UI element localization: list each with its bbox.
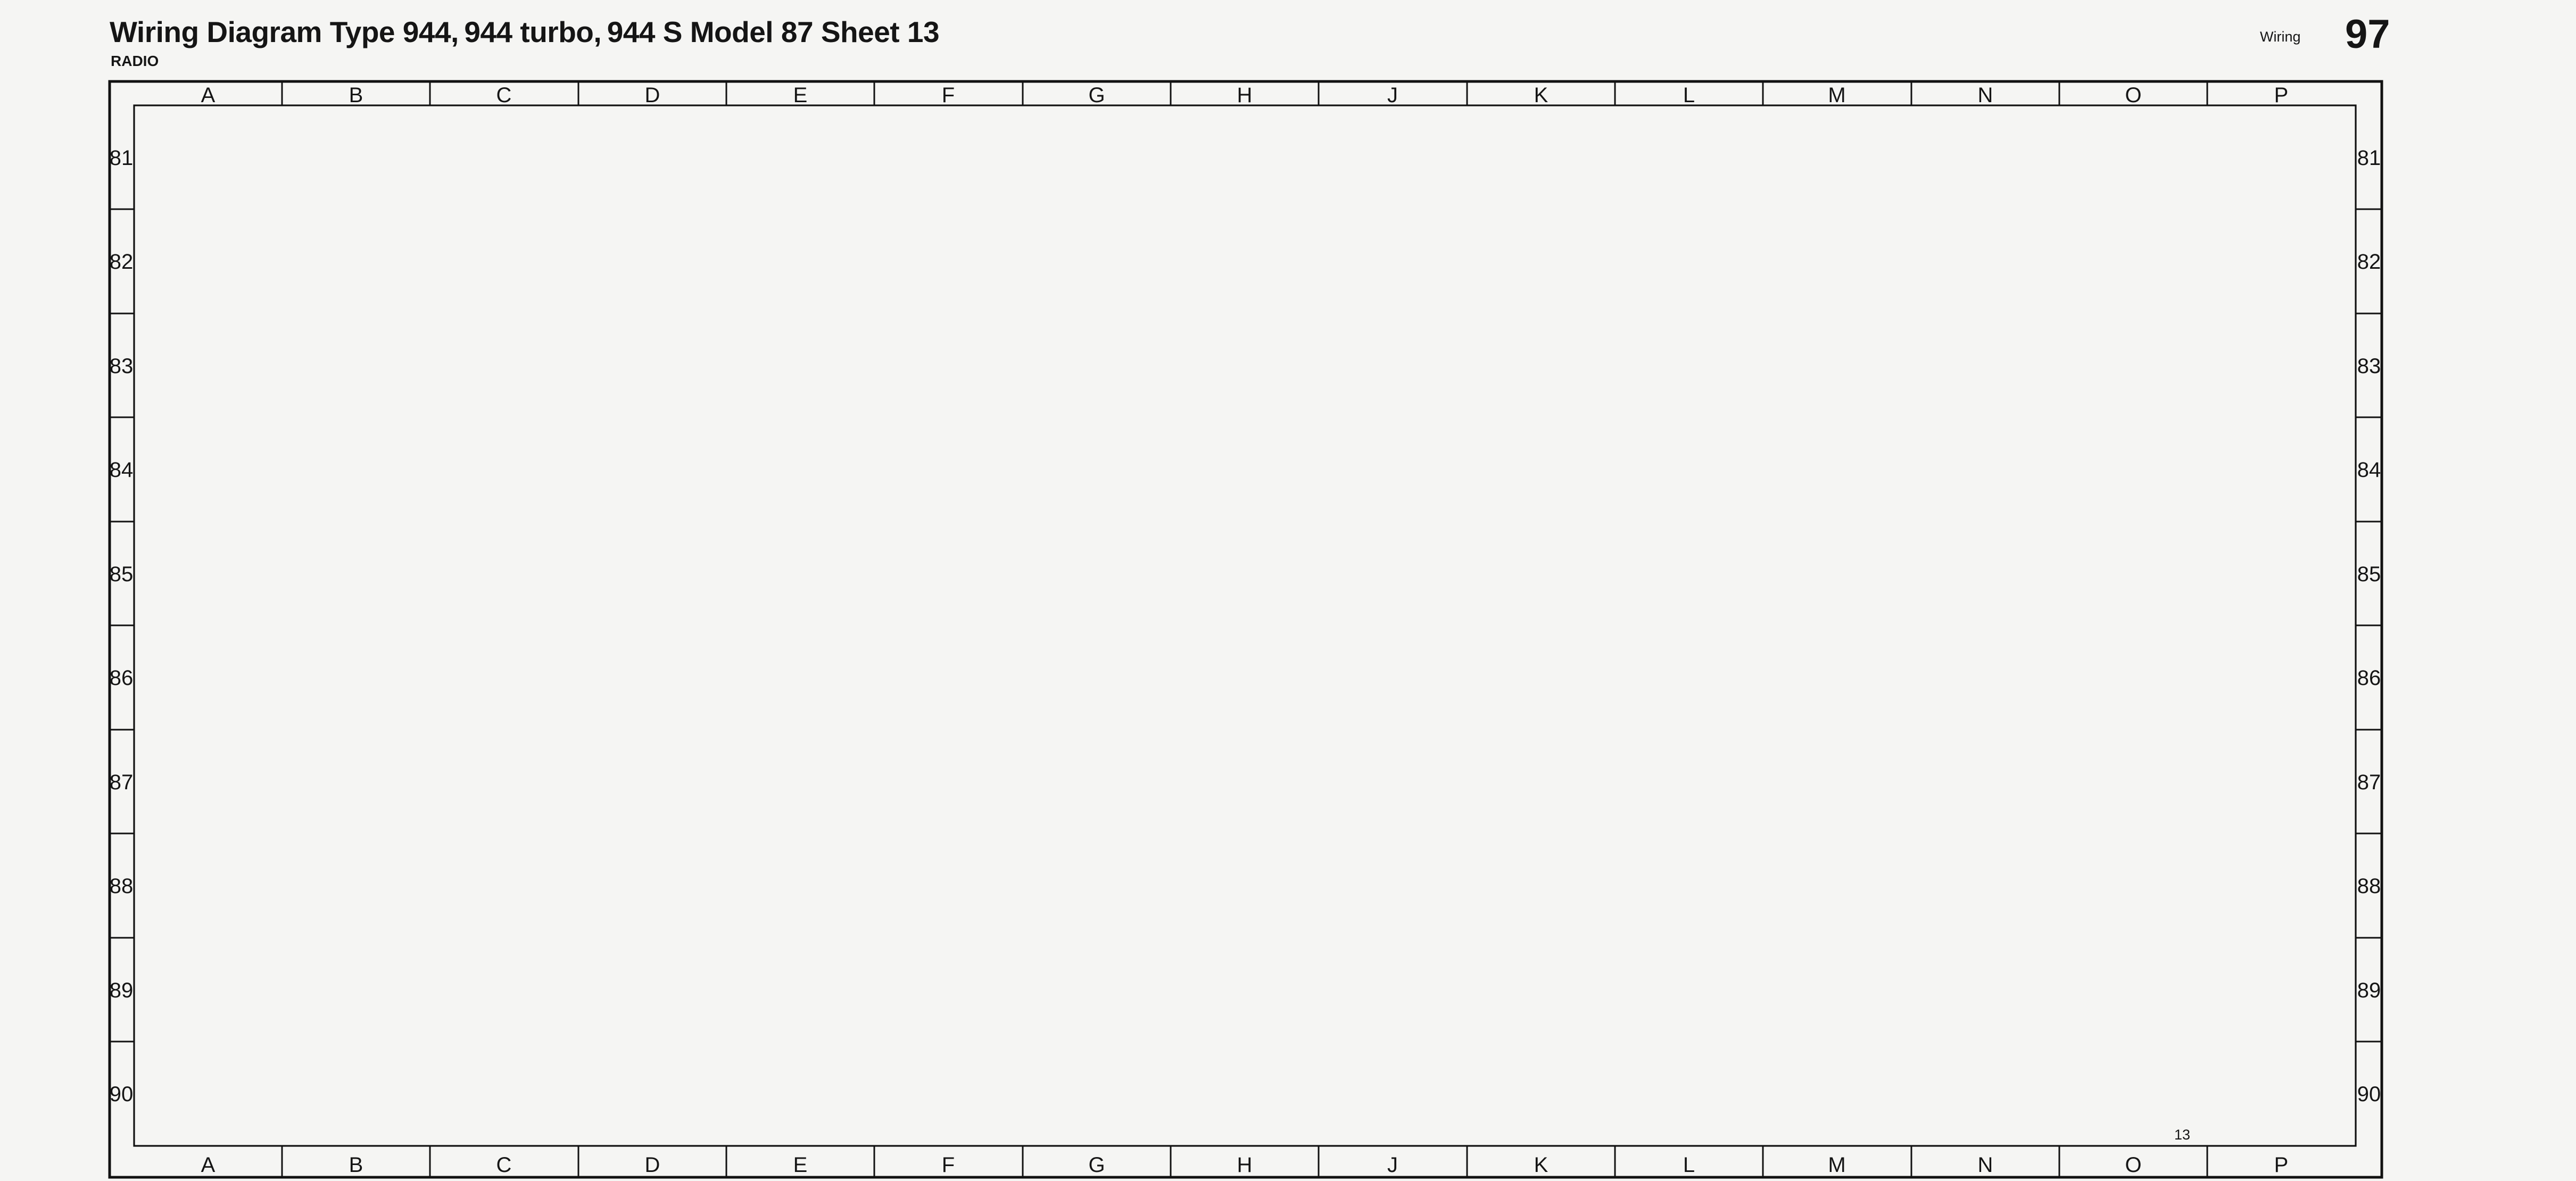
- svg-text:83: 83: [2357, 354, 2381, 378]
- svg-text:82: 82: [110, 250, 134, 274]
- svg-text:A: A: [201, 1153, 216, 1177]
- svg-text:J: J: [1387, 1153, 1398, 1177]
- svg-text:N: N: [1978, 84, 1993, 107]
- svg-text:L: L: [1683, 1153, 1695, 1177]
- svg-text:Wiring: Wiring: [2260, 29, 2301, 45]
- svg-text:F: F: [942, 84, 955, 107]
- column ticks top/bottom: [282, 81, 2207, 1177]
- svg-text:H: H: [1237, 1153, 1253, 1177]
- svg-text:E: E: [793, 84, 808, 107]
- svg-text:B: B: [349, 84, 363, 107]
- svg-text:RADIO: RADIO: [111, 53, 159, 69]
- svg-text:H: H: [1237, 84, 1253, 107]
- svg-text:O: O: [2125, 84, 2141, 107]
- svg-text:83: 83: [110, 354, 134, 378]
- svg-text:89: 89: [110, 979, 134, 1002]
- svg-text:90: 90: [110, 1083, 134, 1106]
- svg-text:86: 86: [110, 666, 134, 690]
- svg-text:Wiring Diagram Type 944, 944 t: Wiring Diagram Type 944, 944 turbo, 944 …: [110, 15, 939, 48]
- svg-text:D: D: [645, 1153, 660, 1177]
- svg-text:P: P: [2274, 1153, 2289, 1177]
- svg-text:K: K: [1534, 1153, 1548, 1177]
- column letters top: [201, 84, 2289, 107]
- row ticks left/right: [110, 209, 2382, 1042]
- svg-text:97: 97: [2345, 12, 2390, 57]
- svg-text:B: B: [349, 1153, 363, 1177]
- svg-text:90: 90: [2357, 1083, 2381, 1106]
- svg-text:L: L: [1683, 84, 1695, 107]
- svg-text:87: 87: [110, 771, 134, 794]
- svg-text:88: 88: [110, 874, 134, 898]
- svg-text:89: 89: [2357, 979, 2381, 1002]
- svg-text:N: N: [1978, 1153, 1993, 1177]
- svg-text:C: C: [496, 84, 512, 107]
- svg-text:85: 85: [2357, 563, 2381, 586]
- svg-text:85: 85: [110, 563, 134, 586]
- svg-text:D: D: [645, 84, 660, 107]
- svg-text:84: 84: [110, 458, 134, 482]
- svg-text:K: K: [1534, 84, 1548, 107]
- svg-text:O: O: [2125, 1153, 2141, 1177]
- svg-text:M: M: [1828, 84, 1845, 107]
- svg-text:J: J: [1387, 84, 1398, 107]
- row numbers: [110, 146, 2381, 1106]
- svg-text:82: 82: [2357, 250, 2381, 274]
- svg-text:87: 87: [2357, 771, 2381, 794]
- svg-text:81: 81: [2357, 146, 2381, 170]
- column letters bottom: [201, 1153, 2289, 1177]
- svg-text:C: C: [496, 1153, 512, 1177]
- svg-text:86: 86: [2357, 666, 2381, 690]
- svg-text:P: P: [2274, 84, 2289, 107]
- svg-text:F: F: [942, 1153, 955, 1177]
- svg-text:84: 84: [2357, 458, 2381, 482]
- svg-text:G: G: [1088, 84, 1105, 107]
- svg-text:81: 81: [110, 146, 134, 170]
- inner frame: [134, 105, 2356, 1146]
- svg-text:A: A: [201, 84, 216, 107]
- svg-text:M: M: [1828, 1153, 1845, 1177]
- svg-text:G: G: [1088, 1153, 1105, 1177]
- svg-text:13: 13: [2174, 1127, 2190, 1143]
- svg-text:88: 88: [2357, 874, 2381, 898]
- svg-text:E: E: [793, 1153, 808, 1177]
